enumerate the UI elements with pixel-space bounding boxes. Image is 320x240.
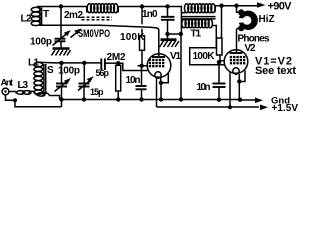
svg-text:HiZ: HiZ (259, 14, 275, 25)
svg-text:100p: 100p (30, 37, 52, 48)
svg-text:+1.5V: +1.5V (272, 103, 299, 113)
svg-text:100K: 100K (193, 51, 216, 62)
svg-text:See text: See text (255, 65, 296, 77)
svg-text:10n: 10n (126, 75, 141, 86)
svg-text:T1: T1 (191, 29, 202, 40)
svg-text:T: T (43, 9, 49, 20)
svg-text:V1: V1 (170, 51, 181, 62)
svg-text:56p: 56p (96, 68, 110, 78)
svg-text:+90V: +90V (268, 1, 293, 13)
svg-text:V2: V2 (245, 43, 256, 54)
svg-text:2M2: 2M2 (107, 52, 126, 63)
svg-text:100p: 100p (58, 66, 80, 77)
svg-text:10n: 10n (197, 82, 211, 93)
svg-text:SM0VPO: SM0VPO (78, 28, 110, 41)
svg-text:L3: L3 (18, 80, 29, 91)
svg-text:S: S (47, 65, 54, 76)
svg-text:L2: L2 (21, 14, 32, 25)
svg-text:2m2: 2m2 (64, 10, 83, 21)
svg-text:1n0: 1n0 (142, 9, 158, 20)
svg-text:Ant: Ant (1, 78, 14, 89)
svg-text:15p: 15p (90, 87, 104, 97)
